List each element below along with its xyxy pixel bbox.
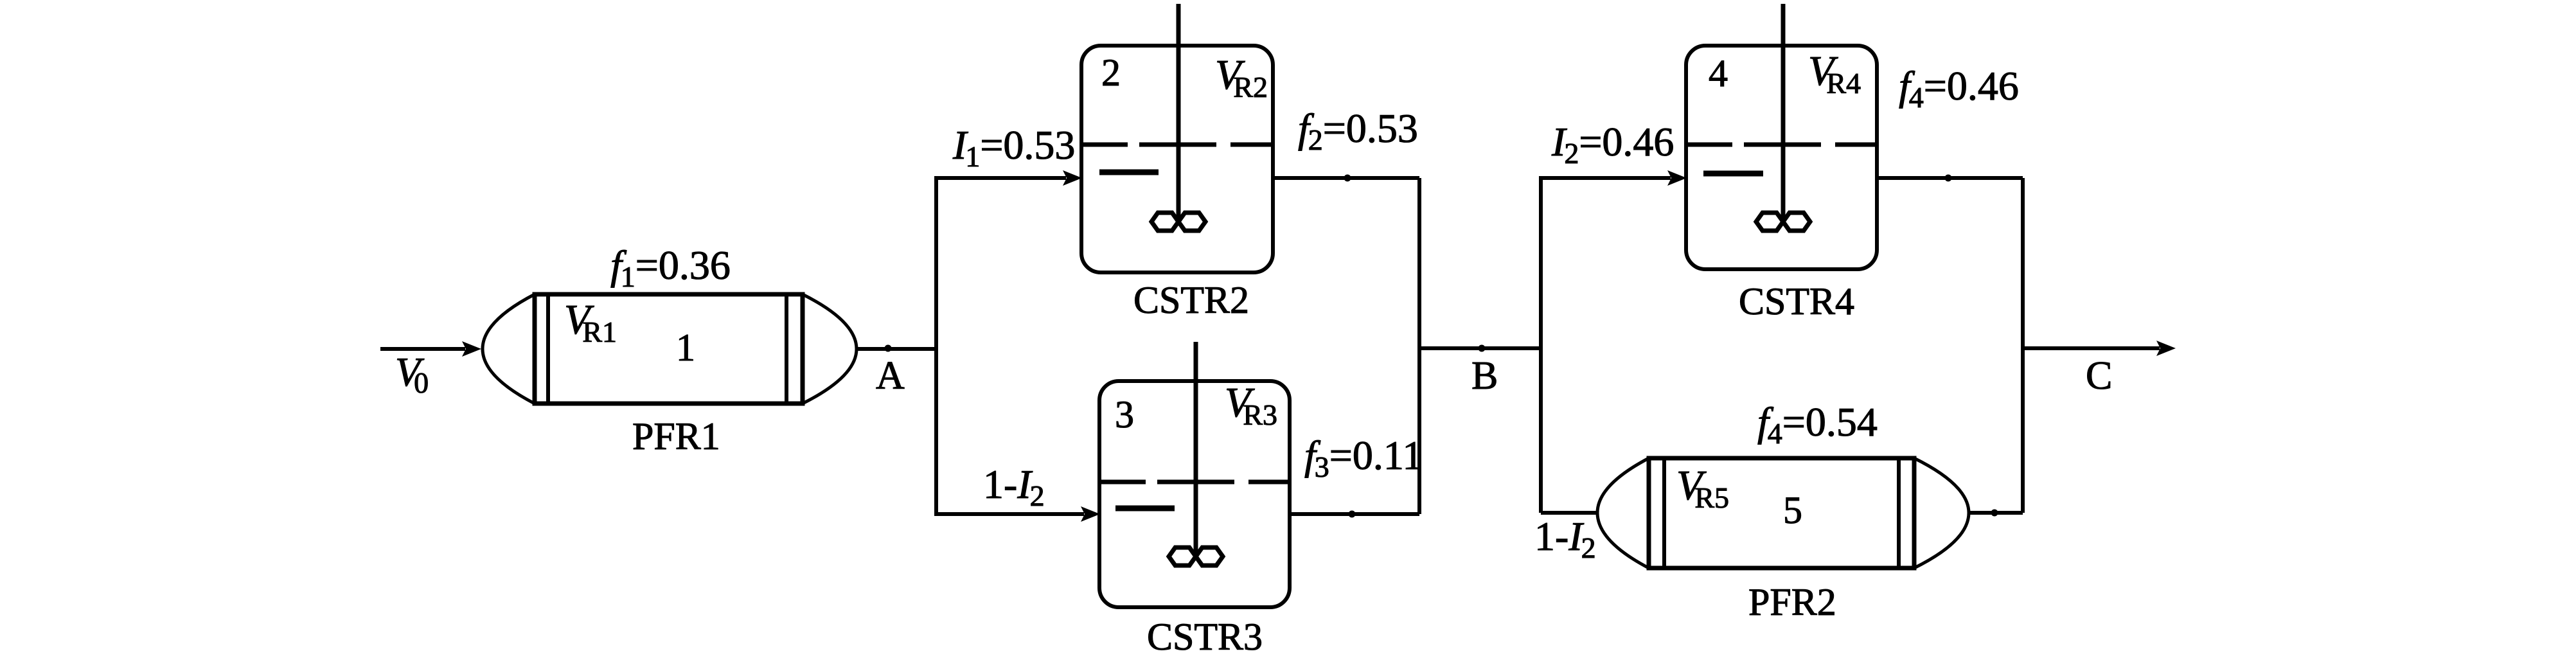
svg-text:CSTR3: CSTR3 <box>1147 616 1263 658</box>
svg-text:PFR1: PFR1 <box>632 415 720 458</box>
wire merge vertical into node B <box>1417 178 1421 514</box>
svg-text:A: A <box>876 354 905 398</box>
wire split vertical after node B <box>1539 178 1543 513</box>
CSTR3 liquid level dashed line <box>1101 480 1288 485</box>
svg-text:I1=0.53: I1=0.53 <box>952 122 1075 173</box>
arrowhead into CSTR2 <box>1063 170 1082 186</box>
junction dot CSTR2 outlet <box>1344 175 1351 182</box>
svg-text:VR3: VR3 <box>1225 379 1277 431</box>
arrowhead outlet C <box>2156 341 2176 356</box>
PFR1 left head cap <box>483 294 535 404</box>
svg-text:C: C <box>2086 354 2112 398</box>
svg-text:5: 5 <box>1783 489 1802 531</box>
svg-text:B: B <box>1471 354 1498 398</box>
reactor PFR1 body <box>483 294 857 404</box>
CSTR4 impeller <box>1756 213 1810 231</box>
svg-text:f3=0.11: f3=0.11 <box>1304 432 1423 483</box>
svg-text:VR5: VR5 <box>1676 462 1729 514</box>
wire V0 inlet stream <box>380 347 465 351</box>
reactor CSTR3 tank <box>1099 381 1290 607</box>
wire CSTR2 outlet <box>1273 176 1419 180</box>
wire PFR2 outlet <box>1969 511 2023 515</box>
svg-text:3: 3 <box>1115 393 1134 436</box>
svg-text:VR1: VR1 <box>564 296 617 348</box>
svg-text:1-I2: 1-I2 <box>1534 513 1596 564</box>
wire outlet stream C <box>2021 346 2160 350</box>
svg-text:f4=0.46: f4=0.46 <box>1899 63 2019 114</box>
CSTR2 impeller <box>1151 213 1205 231</box>
wire merge vertical to outlet C <box>2021 178 2025 513</box>
junction dot CSTR3 outlet <box>1349 511 1356 518</box>
reactor CSTR2 tank <box>1081 46 1273 272</box>
svg-text:2: 2 <box>1101 51 1121 94</box>
reactor CSTR4 tank <box>1686 46 1877 269</box>
wire split vertical at node A <box>934 178 938 514</box>
PFR2 left head cap <box>1597 458 1649 568</box>
CSTR4 liquid level dashed line <box>1688 143 1875 147</box>
svg-text:f1=0.36: f1=0.36 <box>610 242 731 293</box>
CSTR3 impeller <box>1169 547 1223 565</box>
node A junction dot <box>885 345 892 352</box>
wire inlet to CSTR4 <box>1539 176 1671 180</box>
wire inlet to CSTR3 <box>934 512 1084 516</box>
svg-text:PFR2: PFR2 <box>1748 581 1836 623</box>
junction dot CSTR4 outlet <box>1945 175 1952 182</box>
CSTR2 stirrer shaft <box>1177 4 1181 222</box>
PFR2 left inner line <box>1662 458 1666 568</box>
CSTR3 short liquid stub line <box>1115 506 1175 511</box>
svg-text:I2=0.46: I2=0.46 <box>1551 119 1674 170</box>
svg-text:f2=0.53: f2=0.53 <box>1298 105 1418 156</box>
svg-text:1: 1 <box>676 326 695 369</box>
arrowhead into CSTR4 <box>1667 170 1687 186</box>
svg-text:CSTR2: CSTR2 <box>1133 279 1249 321</box>
svg-text:1-I2: 1-I2 <box>983 461 1045 512</box>
PFR1 left inner line <box>546 294 550 404</box>
svg-text:4: 4 <box>1709 52 1728 94</box>
wire CSTR3 outlet <box>1290 512 1419 516</box>
junction dot PFR2 outlet <box>1991 510 1998 517</box>
wire node B horizontal <box>1417 346 1543 350</box>
svg-text:CSTR4: CSTR4 <box>1739 280 1854 323</box>
wire CSTR4 outlet <box>1877 176 2023 180</box>
CSTR2 liquid level dashed line <box>1083 143 1271 147</box>
arrowhead into CSTR3 <box>1081 506 1100 522</box>
svg-text:f4=0.54: f4=0.54 <box>1757 399 1878 450</box>
svg-text:VR4: VR4 <box>1808 48 1861 100</box>
reactor PFR2 body <box>1597 458 1969 568</box>
wire inlet to CSTR2 <box>934 176 1066 180</box>
PFR2 right inner line <box>1897 458 1901 568</box>
CSTR2 short liquid stub line <box>1099 170 1159 175</box>
node B junction dot <box>1479 345 1486 352</box>
wire PFR1 outlet to node A <box>857 347 936 351</box>
arrowhead into PFR1 <box>462 341 481 357</box>
svg-text:V0: V0 <box>395 349 429 399</box>
svg-text:VR2: VR2 <box>1215 51 1268 103</box>
CSTR3 stirrer shaft <box>1194 342 1198 557</box>
CSTR4 short liquid stub line <box>1703 171 1763 177</box>
PFR2 right head cap <box>1914 458 1969 568</box>
PFR1 right head cap <box>803 294 857 404</box>
wire inlet to PFR2 <box>1541 511 1597 515</box>
CSTR4 stirrer shaft <box>1781 4 1786 222</box>
PFR1 right inner line <box>785 294 788 404</box>
